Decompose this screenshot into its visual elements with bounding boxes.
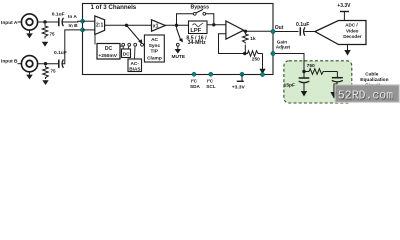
svg-text:Out: Out xyxy=(275,25,284,31)
svg-text:1 of 3 Channels: 1 of 3 Channels xyxy=(91,4,137,11)
svg-text:250: 250 xyxy=(252,56,260,62)
svg-text:0.1uF: 0.1uF xyxy=(52,12,65,18)
svg-text:AC: AC xyxy=(151,37,158,43)
svg-text:75: 75 xyxy=(50,32,56,37)
svg-text:DC: DC xyxy=(105,46,113,52)
svg-text:LPF: LPF xyxy=(190,28,201,34)
svg-text:1k: 1k xyxy=(250,36,256,42)
svg-text:In A: In A xyxy=(68,14,77,20)
svg-text:Decoder: Decoder xyxy=(343,34,362,39)
svg-text:Bypass: Bypass xyxy=(191,4,210,10)
svg-text:BIAS: BIAS xyxy=(129,66,140,71)
svg-text:+250mV: +250mV xyxy=(98,53,117,59)
svg-text:ADC /: ADC / xyxy=(345,23,358,28)
svg-text:750: 750 xyxy=(307,63,315,69)
svg-text:Input A: Input A xyxy=(1,20,18,26)
svg-text:In B: In B xyxy=(69,23,79,29)
svg-text:AC-: AC- xyxy=(131,61,140,66)
svg-text:SDA: SDA xyxy=(190,84,201,89)
svg-text:Input B: Input B xyxy=(1,59,18,65)
svg-text:+3.3V: +3.3V xyxy=(337,3,351,9)
svg-text:2:1: 2:1 xyxy=(96,23,103,29)
svg-text:Cable: Cable xyxy=(365,71,378,77)
svg-text:Equalization: Equalization xyxy=(360,77,388,83)
svg-text:52RD.com: 52RD.com xyxy=(338,90,393,103)
svg-text:I²C: I²C xyxy=(191,78,198,83)
svg-text:I²C: I²C xyxy=(207,78,214,83)
svg-text:SCL: SCL xyxy=(206,84,216,89)
svg-text:Clamp: Clamp xyxy=(147,56,162,62)
svg-text:0.1uF: 0.1uF xyxy=(296,22,309,28)
svg-text:DC: DC xyxy=(123,51,130,56)
svg-text:15pF: 15pF xyxy=(284,83,295,89)
svg-text:75: 75 xyxy=(51,69,57,74)
svg-text:MUTE: MUTE xyxy=(172,54,186,60)
svg-text:TIP: TIP xyxy=(151,49,159,55)
svg-text:x1: x1 xyxy=(153,24,159,30)
svg-text:Sync: Sync xyxy=(149,43,161,49)
svg-text:Video: Video xyxy=(346,28,359,33)
svg-text:34-MHz: 34-MHz xyxy=(188,40,207,46)
svg-text:Adjust: Adjust xyxy=(276,44,291,49)
svg-text:+3.3V: +3.3V xyxy=(232,84,246,90)
